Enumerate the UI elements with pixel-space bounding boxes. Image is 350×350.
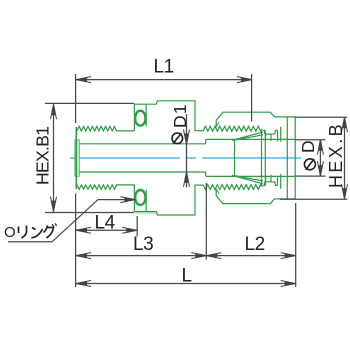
- phi symbol of phiD: [304, 159, 315, 170]
- thread top zigzag (left stud): [77, 126, 134, 130]
- body left end face bore band: [75, 140, 80, 176]
- ext line left x76: [75, 74, 77, 287]
- svg-text:L: L: [182, 266, 192, 287]
- HEX.B1 bottom ext: [45, 212, 134, 214]
- svg-text:L1: L1: [154, 57, 174, 78]
- O-ring top: [135, 111, 145, 126]
- thread bottom zigzag (left stud): [77, 185, 134, 190]
- body left end face: [75, 127, 77, 189]
- O-ring groove top: [145, 104, 147, 126]
- L4 dim line: [76, 229, 137, 231]
- O-ring bottom: [135, 190, 145, 205]
- svg-text:D1: D1: [170, 103, 190, 128]
- phi symbol of phiD1: [172, 133, 183, 144]
- nut counterbore: [286, 117, 288, 199]
- O-ring leader: [8, 200, 135, 242]
- HEX.B1 dim line: [53, 104, 55, 211]
- svg-text:L3: L3: [133, 234, 153, 255]
- L3 dim line: [76, 255, 206, 257]
- svg-text:HEX.B1: HEX.B1: [33, 127, 53, 185]
- L2 dim line: [206, 255, 295, 257]
- phiD dim line: [319, 140, 321, 176]
- back ferrule: [263, 130, 278, 186]
- svg-text:L2: L2: [245, 234, 265, 255]
- front ferrule: [232, 130, 263, 186]
- L1 arrows: [76, 78, 87, 82]
- HEX.B dim line: [344, 117, 346, 199]
- kana n: [32, 228, 43, 238]
- svg-text:HEX.B: HEX.B: [326, 122, 346, 188]
- nut thread bottom zigzag: [203, 185, 262, 190]
- hex body bottom edge: [134, 185, 203, 215]
- O-ring groove bottom: [145, 190, 147, 212]
- HEX.B arrows: [343, 117, 347, 128]
- nut thread top zigzag: [203, 126, 262, 131]
- bore big top line: [206, 138, 296, 140]
- L4 right ext: [136, 216, 138, 237]
- phiD ext lines: [296, 140, 326, 176]
- hex body top edge: [134, 101, 203, 131]
- nut internal chamfer: [216, 122, 219, 193]
- HEX.B1 top ext: [45, 102, 134, 104]
- L2L3 ext: [205, 183, 207, 260]
- L3 arrows: [76, 254, 87, 258]
- arrowheads: [51, 77, 348, 287]
- svg-text:O: O: [4, 224, 16, 241]
- HEX.B1 arrows: [52, 104, 56, 115]
- ext line L1 right x252: [251, 74, 253, 122]
- hex bottom shading: [135, 212, 158, 215]
- phiD1 dim line: [186, 114, 188, 187]
- bore step: [205, 139, 207, 176]
- nut outline: [216, 112, 295, 203]
- bore big bottom line: [206, 175, 296, 177]
- phiD1 arrows: [185, 134, 189, 145]
- O-ring leader arrow: [124, 198, 135, 202]
- kana gu (ku): [44, 226, 54, 239]
- nut shoulder: [278, 127, 281, 189]
- L4 arrows: [76, 229, 87, 233]
- HEX.B bottom ext: [280, 198, 347, 200]
- dimension lines group: [8, 74, 347, 287]
- right ext x295.7: [295, 203, 297, 287]
- kana ri: [19, 226, 27, 239]
- L2 arrows: [206, 254, 217, 258]
- L1 dimension line: [76, 79, 252, 81]
- svg-text:D: D: [298, 139, 318, 153]
- phiD arrows: [319, 140, 323, 151]
- bore small top line: [79, 143, 205, 145]
- HEX.B top ext: [295, 116, 347, 118]
- dakuten: [52, 223, 56, 226]
- centerline: [70, 157, 301, 159]
- bore small bottom line: [79, 171, 205, 173]
- L arrows: [76, 282, 87, 286]
- label O-ring kana: [19, 223, 57, 238]
- L dim line: [76, 283, 296, 285]
- svg-text:L4: L4: [95, 213, 116, 234]
